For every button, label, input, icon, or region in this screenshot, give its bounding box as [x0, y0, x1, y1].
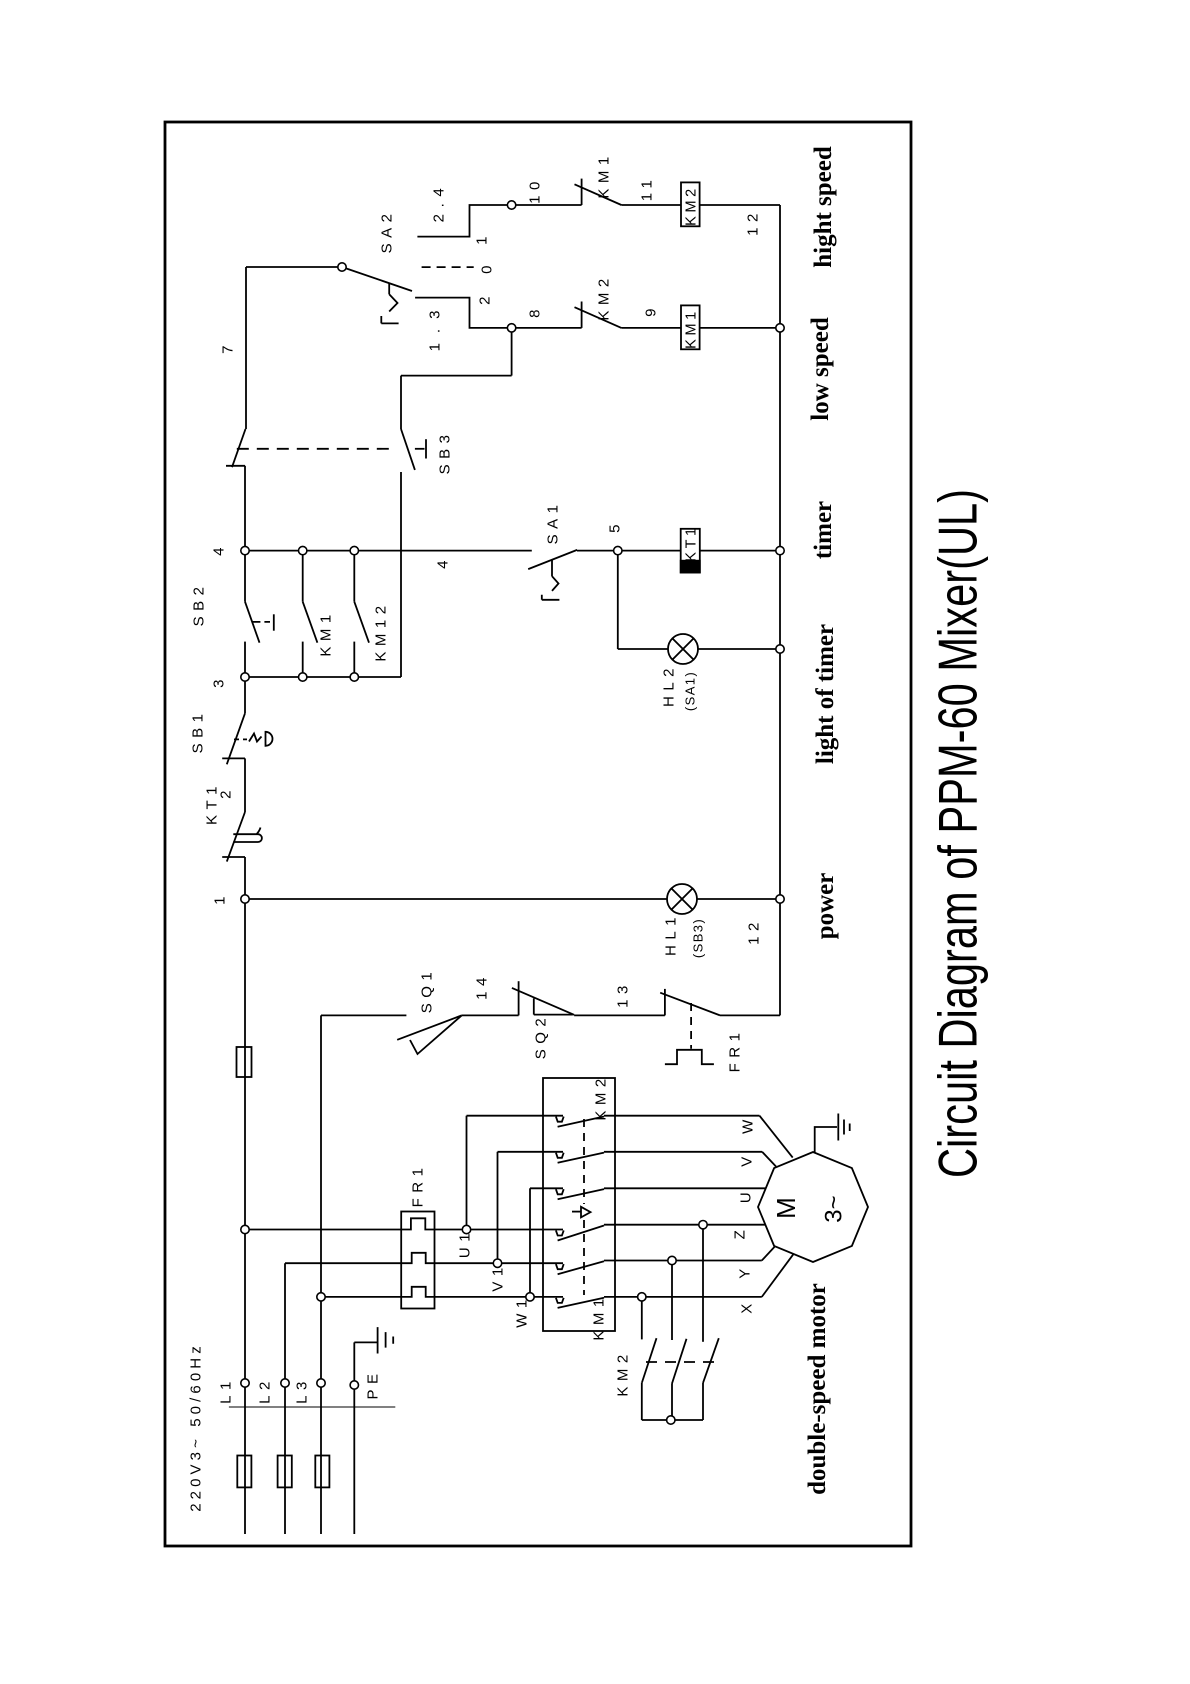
- wire row6 out to motor X: [604, 1296, 762, 1298]
- wire L2 phase to FR1: [285, 1262, 401, 1264]
- motor ground wire: [815, 1127, 837, 1153]
- KM1 aux bottom wire: [302, 642, 304, 677]
- FR1 heater element V: [401, 1253, 563, 1263]
- svg-text:KM2: KM2: [592, 1073, 609, 1120]
- KT1 coil filled section: [681, 561, 700, 573]
- FR1 trip arm: [660, 993, 720, 1016]
- wire node 9: [621, 327, 681, 329]
- coil KM2 box: [681, 182, 700, 226]
- KM2 main contact row1 arm: [558, 1117, 604, 1127]
- KM1 main contact row5 arm: [558, 1261, 604, 1274]
- fuse FU control (on L1 column): [237, 1047, 252, 1077]
- node Z: [699, 1221, 707, 1229]
- svg-text:12: 12: [745, 917, 762, 945]
- svg-text:KM1: KM1: [590, 1293, 607, 1340]
- node rail at HL1: [776, 895, 784, 903]
- rail node 12: [779, 205, 781, 1015]
- wire W1 riser: [529, 1188, 531, 1297]
- svg-text:KM1: KM1: [595, 151, 612, 198]
- svg-text:2.4: 2.4: [430, 182, 447, 223]
- node rail at HL2: [776, 645, 784, 653]
- wire SB1 to KT1 (node 2): [244, 758, 246, 812]
- terminal tick line: [229, 1406, 395, 1408]
- KM1 NC interlock riser: [581, 179, 583, 205]
- KM2 main contact row2 arm: [558, 1153, 604, 1163]
- KM1 aux contact arm: [303, 602, 318, 643]
- svg-text:KM12: KM12: [372, 600, 389, 661]
- node V1: [493, 1259, 501, 1267]
- SB2 contact arm: [245, 602, 260, 643]
- node star point: [667, 1416, 675, 1424]
- thermal relay FR1 trip riser: [664, 989, 666, 1016]
- KM2 star contact 2 arm: [672, 1339, 687, 1384]
- terminal L2: [281, 1379, 289, 1387]
- svg-text:SA2: SA2: [378, 209, 395, 254]
- wire U1 riser: [466, 1116, 468, 1230]
- svg-text:1: 1: [211, 891, 228, 905]
- KM2 main contact row3 cup: [556, 1189, 564, 1194]
- wire W diagonal to motor: [760, 1116, 793, 1158]
- KT1 delay symbol: [233, 828, 262, 843]
- wire KT1 coil to rail 12: [700, 550, 780, 552]
- svg-text:2: 2: [476, 291, 493, 305]
- SA2 position stub 0 dashed: [422, 266, 474, 268]
- svg-text:5: 5: [606, 519, 623, 533]
- wire L1 column (node1 down to bottom): [244, 857, 246, 1534]
- SB3 NC pole terminal bar: [226, 465, 245, 467]
- KM1 main contact row5 cup: [556, 1264, 564, 1269]
- svg-text:PE: PE: [364, 1368, 381, 1399]
- svg-text:2: 2: [217, 785, 234, 799]
- fuse FU3 main L3: [315, 1456, 329, 1488]
- svg-text:Y: Y: [736, 1263, 753, 1279]
- KM1 main contact row6 cup: [556, 1298, 564, 1303]
- wire node 13: [574, 1014, 665, 1016]
- border frame: [165, 122, 911, 1546]
- node 4 at KM1: [299, 546, 307, 554]
- SQ1 wedge: [410, 1015, 462, 1054]
- KM2 star linkage dashed: [646, 1361, 714, 1363]
- KM2 NC interlock arm: [575, 307, 622, 328]
- wire Y diagonal to motor: [762, 1246, 776, 1261]
- svg-text:(SA1): (SA1): [683, 671, 698, 711]
- SB2 actuator bar: [273, 614, 275, 630]
- SB1 NC contact arm: [227, 713, 245, 764]
- wire HL2 branch: [618, 648, 780, 650]
- svg-text:(SB3): (SB3): [691, 918, 706, 958]
- svg-text:KM2: KM2: [684, 185, 700, 226]
- svg-text:SB1: SB1: [189, 709, 206, 754]
- lamp HL2: [668, 634, 698, 664]
- wire X drop: [641, 1297, 643, 1340]
- KM main linkage dashed upper: [583, 1119, 585, 1204]
- svg-text:power: power: [812, 873, 839, 940]
- svg-text:timer: timer: [810, 501, 837, 559]
- KM1 NC interlock arm: [575, 184, 622, 205]
- svg-text:L3: L3: [293, 1376, 310, 1404]
- timer contact KT1 arm: [227, 812, 245, 862]
- node 4 at KM12: [350, 546, 358, 554]
- wire V1 riser: [497, 1152, 499, 1263]
- svg-text:hight speed: hight speed: [810, 146, 837, 268]
- svg-text:FR1: FR1: [726, 1028, 743, 1073]
- contactor KM1/KM2 main box: [543, 1078, 615, 1331]
- svg-text:low speed: low speed: [807, 317, 834, 421]
- node L3 junction: [317, 1293, 325, 1301]
- svg-text:SB2: SB2: [190, 582, 207, 627]
- KM2 star contact 3 arm: [703, 1338, 719, 1383]
- wire node 10 to KM1 NC: [512, 204, 582, 206]
- svg-text:12: 12: [744, 208, 761, 236]
- SB3 button cap bar: [425, 439, 427, 458]
- svg-text:KM2: KM2: [595, 273, 612, 320]
- selector SA2 arm: [342, 267, 412, 291]
- node 3 at KM12: [350, 673, 358, 681]
- wire L2 column: [284, 1263, 286, 1534]
- earth symbol motor: [838, 1114, 849, 1141]
- wire PE to earth: [354, 1341, 377, 1343]
- FR1 heater element W: [401, 1287, 563, 1297]
- svg-text:double-speed motor: double-speed motor: [804, 1283, 831, 1495]
- node SA2 pivot: [338, 263, 346, 271]
- svg-text:X: X: [738, 1298, 755, 1314]
- wire SQ1 feed from L3: [321, 1014, 406, 1016]
- wire L3 phase to FR1: [321, 1296, 401, 1298]
- wire X diagonal to motor: [762, 1254, 794, 1297]
- wire W1 riser top to KM2 row3: [530, 1187, 563, 1189]
- SB3 linkage dashed: [237, 448, 397, 450]
- svg-text:KM1: KM1: [317, 609, 334, 656]
- node 3 at SB1: [241, 673, 249, 681]
- pushbutton SB2 top wire: [244, 551, 246, 602]
- terminal L3: [317, 1379, 325, 1387]
- SA2 position stub 1: [417, 205, 511, 237]
- wire node 11: [621, 204, 681, 206]
- KM1 main contact row4 cup: [556, 1230, 564, 1235]
- wire Y drop: [671, 1261, 673, 1341]
- coil KM1 box: [681, 305, 700, 349]
- SB2 bottom wire: [244, 642, 246, 677]
- KM main linkage dashed lower: [583, 1220, 585, 1295]
- pushbutton SB1 top wire: [244, 677, 246, 713]
- SB3 NO pole arm: [401, 429, 415, 470]
- svg-text:3~: 3~: [820, 1195, 847, 1222]
- wire L1 phase to FR1: [245, 1229, 401, 1231]
- svg-text:14: 14: [473, 972, 490, 1000]
- svg-text:FR1: FR1: [409, 1163, 426, 1208]
- wire V1 riser top to KM2 row2: [498, 1151, 564, 1153]
- wire FR1 trip to rail 12: [720, 1014, 780, 1016]
- terminal L1: [241, 1379, 249, 1387]
- svg-text:HL2: HL2: [660, 663, 677, 707]
- svg-text:L1: L1: [217, 1376, 234, 1404]
- wire Z drop: [702, 1225, 704, 1342]
- FR1 trip device bracket: [665, 1050, 714, 1064]
- node U1: [462, 1225, 470, 1233]
- SB3 NO pole top wire from node 8 link: [400, 376, 402, 429]
- SB1 terminal bar: [222, 757, 245, 759]
- SB1 mushroom cap: [266, 732, 273, 746]
- SB1 actuator dash: [234, 738, 247, 740]
- svg-text:KT1: KT1: [684, 524, 700, 561]
- svg-text:1: 1: [473, 231, 490, 245]
- KM linkage star marker: [572, 1211, 581, 1213]
- KT1 terminal bar: [222, 856, 245, 858]
- KM2 star contact 1 bottom: [641, 1382, 643, 1420]
- svg-text:4: 4: [434, 555, 451, 569]
- SA2 manual-operator symbol: [381, 284, 398, 324]
- svg-text:V: V: [738, 1151, 755, 1167]
- wire row2 out to motor V: [604, 1151, 762, 1153]
- svg-text:Circuit Diagram of PPM-60 Mixe: Circuit Diagram of PPM-60 Mixer(UL): [926, 489, 988, 1178]
- contact KM12 aux top wire: [353, 551, 355, 602]
- SB1 actuator zigzag: [249, 734, 262, 742]
- node 10: [507, 201, 515, 209]
- KM2 star contact 2 bottom: [671, 1384, 673, 1421]
- motor M octagon: [758, 1152, 868, 1262]
- node W1: [526, 1293, 534, 1301]
- wire node 14: [462, 1014, 519, 1016]
- SA2 position stub 2: [415, 298, 512, 328]
- wire PE column: [353, 1342, 355, 1534]
- limit switch SQ1 arm: [397, 1015, 462, 1039]
- wire node 7 vertical: [245, 267, 247, 429]
- svg-text:8: 8: [526, 304, 543, 318]
- svg-text:11: 11: [638, 175, 655, 202]
- lamp HL1: [667, 884, 697, 914]
- svg-text:SQ1: SQ1: [418, 967, 435, 1014]
- svg-text:SQ2: SQ2: [532, 1013, 549, 1060]
- node 5: [614, 546, 622, 554]
- KM2 main contact row1 cup: [556, 1117, 564, 1122]
- thermal relay FR1 heater box: [401, 1212, 434, 1309]
- KM2 star contact 1 arm: [642, 1338, 657, 1382]
- SB2 actuator link dashes: [252, 621, 270, 623]
- svg-text:HL1: HL1: [662, 912, 679, 956]
- svg-text:light of timer: light of timer: [812, 624, 839, 764]
- svg-text:W: W: [739, 1114, 756, 1134]
- wire SB3 NO to node 3: [400, 472, 402, 677]
- KM2 star contact 3 bottom: [702, 1383, 704, 1420]
- wire node 3 bus: [245, 676, 401, 678]
- wire node 1 bus: [245, 898, 780, 900]
- pushbutton SB3 NC pole arm: [232, 429, 246, 467]
- node rail at KT1 coil: [776, 546, 784, 554]
- node 8: [507, 324, 515, 332]
- FR1 trip linkage dashed: [690, 1003, 692, 1049]
- node 1: [241, 895, 249, 903]
- svg-text:1.3: 1.3: [426, 301, 443, 352]
- limit switch SQ2 riser: [518, 981, 520, 1015]
- wire U1 riser top to KM2 row1: [467, 1115, 564, 1117]
- KM12 aux bottom wire: [353, 642, 355, 677]
- svg-text:Z: Z: [731, 1225, 748, 1240]
- fuse FU1 main L1: [237, 1456, 251, 1488]
- svg-text:4: 4: [210, 542, 227, 556]
- contact KM1 aux top wire: [302, 551, 304, 602]
- svg-text:SA1: SA1: [544, 500, 561, 545]
- earth symbol PE: [378, 1327, 394, 1353]
- selector SA1 arm: [528, 550, 577, 569]
- wire L3 column: [320, 1015, 322, 1534]
- node Y: [668, 1256, 676, 1264]
- KM2 main contact row2 cup: [556, 1153, 564, 1158]
- wire node 8 to SB3 horizontal: [401, 375, 512, 377]
- KM12 aux contact arm: [354, 602, 369, 643]
- svg-text:13: 13: [614, 980, 631, 1008]
- KM2 NC interlock riser: [581, 302, 583, 328]
- KM1 main contact row4 arm: [558, 1226, 604, 1241]
- wire node 7 horizontal: [246, 266, 342, 268]
- wire KM1 coil to rail 12: [700, 327, 780, 329]
- wire node 8 to KM2 NC: [512, 327, 582, 329]
- node 4 at SB2: [241, 546, 249, 554]
- svg-text:0: 0: [478, 260, 495, 274]
- SA1 manual-operator symbol: [542, 560, 560, 600]
- wire node 5 to KT1 coil: [577, 550, 681, 552]
- KM2 main contact row3 arm: [558, 1189, 604, 1199]
- FR1 heater element U: [401, 1218, 563, 1229]
- KM1 main contact row6 arm: [558, 1298, 604, 1308]
- wire row3 out to motor U: [604, 1187, 766, 1189]
- wire V diagonal to motor: [762, 1152, 776, 1167]
- node L1 junction: [241, 1225, 249, 1233]
- node 3 at KM1: [299, 673, 307, 681]
- svg-text:KM2: KM2: [614, 1349, 631, 1396]
- node X: [638, 1293, 646, 1301]
- node rail at KM1 coil: [776, 324, 784, 332]
- svg-text:3: 3: [210, 674, 227, 688]
- svg-text:KM1: KM1: [684, 308, 700, 349]
- svg-text:7: 7: [219, 340, 236, 354]
- wire row4 out to motor Z: [604, 1224, 766, 1226]
- wire row1 out to motor W: [604, 1115, 760, 1117]
- svg-text:220V3~ 50/60Hz: 220V3~ 50/60Hz: [187, 1342, 204, 1512]
- terminal PE: [350, 1381, 358, 1389]
- wire KM2 coil to rail 12: [700, 204, 780, 206]
- fuse FU2 main L2: [278, 1456, 292, 1488]
- svg-text:L2: L2: [256, 1376, 273, 1404]
- star point bus: [642, 1419, 703, 1421]
- SQ2 wedge: [534, 998, 573, 1014]
- wire node 5 down to HL2 branch: [617, 551, 619, 649]
- wire node 4 bus: [245, 550, 532, 552]
- wire SB3 NC to node 4: [244, 466, 246, 551]
- svg-text:10: 10: [526, 176, 543, 204]
- wire node 8 to SB3 vertical: [511, 328, 513, 376]
- svg-text:SB3: SB3: [436, 430, 453, 475]
- wire row5 out to motor Y: [604, 1260, 762, 1262]
- SB3 button cap stem: [415, 448, 425, 450]
- svg-text:M: M: [771, 1197, 801, 1219]
- SQ2 arm: [512, 988, 574, 1015]
- coil KT1 box: [681, 529, 700, 573]
- svg-text:U: U: [737, 1187, 754, 1203]
- svg-text:9: 9: [642, 303, 659, 317]
